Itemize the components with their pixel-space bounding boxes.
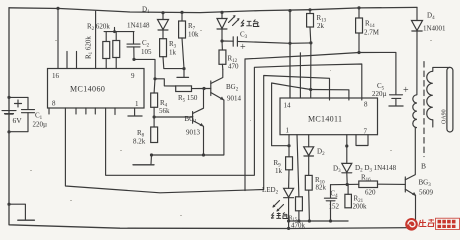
svg-text:8: 8 <box>364 101 368 109</box>
svg-text:14: 14 <box>284 102 292 110</box>
svg-text:R14: R14 <box>365 20 375 29</box>
svg-text:BG1: BG1 <box>185 115 198 124</box>
svg-text:9013: 9013 <box>186 129 201 137</box>
svg-text:C3: C3 <box>240 31 248 40</box>
svg-text:D2 D3 1N4148: D2 D3 1N4148 <box>355 164 397 173</box>
svg-text:MC14060: MC14060 <box>70 85 105 94</box>
svg-text:1: 1 <box>135 100 139 108</box>
svg-text:470: 470 <box>228 63 239 71</box>
svg-text:R16: R16 <box>361 174 371 183</box>
svg-text:1k: 1k <box>169 49 177 57</box>
svg-text:R5 150: R5 150 <box>178 94 198 103</box>
svg-text:C1: C1 <box>35 112 43 121</box>
svg-text:2.7M: 2.7M <box>364 29 380 37</box>
svg-text:6V: 6V <box>13 116 23 125</box>
svg-text:D1: D1 <box>142 6 150 15</box>
svg-text:105: 105 <box>141 48 152 56</box>
svg-text:OA90: OA90 <box>442 109 448 124</box>
svg-text:MC14011: MC14011 <box>308 115 342 124</box>
svg-text:9: 9 <box>131 72 135 80</box>
svg-text:8: 8 <box>52 100 56 108</box>
svg-text:9014: 9014 <box>227 95 242 103</box>
svg-text:10k: 10k <box>188 31 199 39</box>
svg-text:2k: 2k <box>317 22 325 30</box>
svg-text:+: + <box>240 42 246 53</box>
svg-text:1N4148: 1N4148 <box>127 22 150 30</box>
svg-text:620: 620 <box>365 189 376 197</box>
svg-text:16: 16 <box>52 72 60 80</box>
svg-text:B: B <box>421 162 426 171</box>
svg-text:C2: C2 <box>142 39 150 48</box>
svg-text:7: 7 <box>364 128 368 136</box>
svg-text:LED2: LED2 <box>262 186 279 195</box>
svg-text:BG2: BG2 <box>226 83 239 92</box>
svg-text:R1 620k: R1 620k <box>85 36 94 59</box>
svg-text:470k: 470k <box>291 222 306 230</box>
svg-text:82k: 82k <box>316 184 327 192</box>
svg-text:C4: C4 <box>331 190 339 199</box>
svg-text:200k: 200k <box>353 203 368 211</box>
svg-text:1k: 1k <box>275 167 283 175</box>
svg-text:220µ: 220µ <box>372 90 387 98</box>
svg-text:R2 620k: R2 620k <box>87 23 110 32</box>
svg-text:56k: 56k <box>159 107 170 115</box>
svg-text:+: + <box>403 85 409 96</box>
svg-text:220µ: 220µ <box>33 121 48 129</box>
svg-text:1: 1 <box>286 127 290 135</box>
svg-text:BG3: BG3 <box>419 179 432 188</box>
svg-text:152: 152 <box>329 203 340 211</box>
svg-text:D3: D3 <box>333 165 341 174</box>
svg-text:1N4001: 1N4001 <box>423 25 446 33</box>
svg-text:5609: 5609 <box>419 189 434 197</box>
svg-text:D4: D4 <box>427 12 435 21</box>
svg-text:8.2k: 8.2k <box>133 138 146 146</box>
svg-text:D2: D2 <box>317 148 325 157</box>
